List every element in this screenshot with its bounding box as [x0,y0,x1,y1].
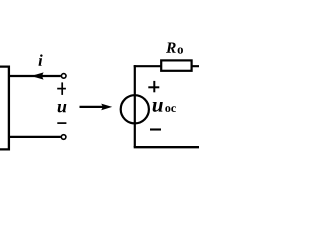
label u (port voltage) [58,104,67,112]
wire (Thevenin top, through resistor to right edge) [134,65,199,67]
terminal a (top open circle) [61,74,66,79]
wire (box to top terminal a) [9,75,61,77]
terminal b (bottom open circle) [61,135,66,140]
minus sign (left port polarity) [57,122,66,124]
current arrow i (pointing left toward box) [31,72,44,79]
plus sign (left port polarity) [57,82,66,95]
wire (Thevenin bottom, to right edge) [134,146,199,148]
equivalence arrow (transformation to Thevenin form) [80,106,104,108]
label i [38,54,42,65]
plus sign (source polarity) [148,81,159,92]
network box N (left two-terminal network, left side cut off by frame) [0,67,9,150]
label uoc [153,102,163,112]
wire (box to bottom terminal b) [9,136,61,138]
wire (Thevenin left branch, vertical through source) [134,65,136,147]
label Ro [166,43,176,53]
minus sign (source polarity) [150,128,161,130]
resistor Ro [161,60,191,70]
voltage source uoc (circle) [121,95,149,123]
